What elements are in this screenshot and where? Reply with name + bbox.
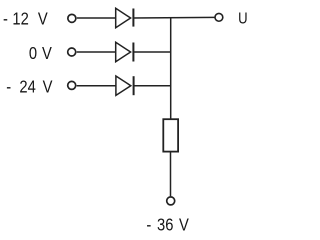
- svg-text:-24V: -24V: [6, 77, 52, 97]
- svg-text:U: U: [238, 10, 247, 27]
- svg-text:-36V: -36V: [146, 215, 189, 235]
- svg-text:-12V: -12V: [3, 9, 48, 29]
- svg-text:0V: 0V: [29, 43, 52, 63]
